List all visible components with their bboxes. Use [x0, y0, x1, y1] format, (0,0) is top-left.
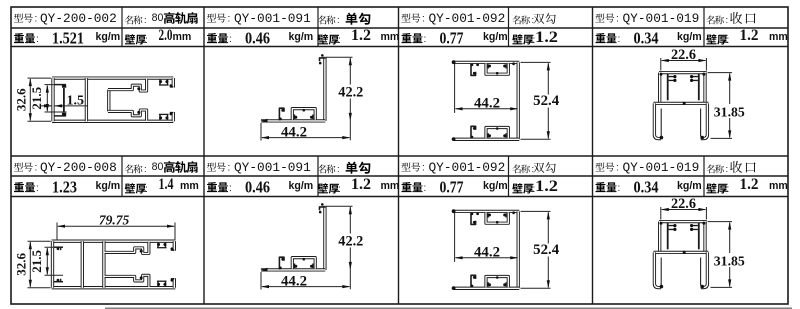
B2C1 profile E top-left clip	[54, 246, 64, 248]
cell(592.5,156) label 壁厚	[706, 183, 716, 193]
header sub-divider x=318	[317, 156, 319, 197]
cell(398.5,7) label 重量	[402, 33, 412, 43]
svg-text:1.2: 1.2	[351, 176, 371, 193]
svg-text::: :	[145, 184, 148, 195]
svg-text::: :	[726, 15, 729, 26]
dim 44.2 extension B1C3	[454, 64, 456, 113]
B2C1 profile E right top screw port	[158, 242, 166, 248]
profile B2C2 base	[261, 268, 325, 271]
cell(592.5,156) name value 收口	[730, 161, 742, 173]
cell(592.5,156) label 重量	[596, 182, 606, 192]
B1C1 profile A right bottom stub	[172, 112, 175, 121]
svg-text:0.34: 0.34	[634, 29, 659, 48]
B1C1 profile A middle divider wall	[85, 78, 88, 121]
svg-text:44.2: 44.2	[474, 244, 500, 260]
dim 31.85 line B1C4	[729, 74, 731, 138]
header sub-divider x=508.5	[508, 7, 510, 47]
B1C1 dim 32.6 extension lines	[28, 78, 52, 121]
B1C1 profile A C-channel upright	[107, 90, 110, 112]
svg-text::: :	[337, 164, 340, 175]
svg-text:42.2: 42.2	[338, 234, 363, 250]
dim 42.2 line B1C2	[349, 58, 351, 140]
dim 22.6 extension B1C4	[661, 58, 707, 71]
cell(11,156) label 型号	[14, 162, 23, 171]
B1C1 dim 21.5 extension lines	[45, 85, 67, 112]
dim 52.4 line B1C3	[547, 63, 549, 138]
dim 44.2 extension B1C2	[260, 123, 262, 141]
profile B1C3 top hat barbs	[487, 64, 489, 68]
cell(11,7) label 型号	[14, 13, 23, 22]
svg-text::: :	[338, 184, 341, 195]
B2C1 profile E right bottom stub	[173, 278, 176, 288]
B2C1 profile E wall 1	[81, 241, 84, 288]
B1C1 profile A C-channel top arm	[108, 79, 147, 91]
B2C1 dim 79.75 extension lines	[57, 223, 175, 241]
svg-text:80: 80	[152, 161, 164, 173]
dim 44.2 extension B2C2	[260, 272, 262, 290]
B2C1 profile E bottom arm	[105, 275, 149, 287]
profile B1C2 base	[261, 119, 325, 122]
svg-text:32.6: 32.6	[14, 253, 29, 276]
dim 44.2 line B2C3	[456, 257, 518, 259]
B1C1 profile A inner sub-wall	[63, 88, 65, 113]
svg-text:1.2: 1.2	[535, 178, 558, 195]
cell(11,156) label 重量	[14, 182, 24, 192]
B1C1 dim 21.5 line	[46, 86, 48, 112]
profile B2C3 bottom hat barbs	[487, 282, 489, 286]
profile B1C3 top tab	[471, 64, 476, 76]
svg-text::: :	[532, 164, 535, 175]
header sub-divider x=704	[703, 156, 705, 197]
cell(204,156) label 名称	[318, 165, 326, 174]
profile B2C3 bottom base	[454, 287, 520, 290]
dim 42.2 line B2C2	[349, 207, 351, 289]
B2C1 profile E top arm	[105, 242, 149, 254]
header sub-divider x=318	[317, 7, 319, 47]
dim 44.2 extension B2C3	[454, 213, 456, 262]
svg-text:kg/m: kg/m	[96, 31, 121, 43]
cell(398.5,156) label 名称	[512, 165, 520, 174]
svg-text::: :	[35, 14, 38, 25]
header sub-divider x=704	[703, 7, 705, 47]
dim 44.2 line B2C2	[262, 286, 349, 288]
profile B2C2 left tab	[279, 257, 284, 269]
profile B2C2 hat channel	[292, 258, 315, 269]
cell(204,7) label 重量	[207, 33, 217, 43]
svg-text:QY-200-008: QY-200-008	[40, 160, 117, 175]
svg-text:44.2: 44.2	[281, 124, 307, 140]
svg-text:1.2: 1.2	[740, 176, 759, 193]
profile B1C2 hat channel	[292, 109, 315, 120]
profile B2C3 top base left tip	[452, 209, 456, 213]
svg-text::: :	[422, 163, 425, 174]
profile B2C2 hat top dot	[303, 258, 306, 261]
table column line x=398.5	[398, 7, 400, 304]
svg-text::: :	[229, 34, 232, 45]
table row line y=196.5	[11, 196, 788, 198]
svg-text:QY-001-091: QY-001-091	[234, 160, 311, 175]
svg-text:80: 80	[152, 12, 164, 24]
svg-text::: :	[422, 14, 425, 25]
svg-text::: :	[616, 14, 619, 25]
profile B1C3 bottom hat barbs	[487, 133, 489, 137]
svg-text:1.2: 1.2	[535, 29, 558, 46]
profile B1C4 left leg	[654, 103, 661, 138]
profile B1C3 bottom tab	[471, 126, 476, 138]
profile B2C4 top bar	[659, 220, 707, 223]
svg-text::: :	[36, 34, 39, 45]
dim 52.4 extension B1C3	[521, 62, 551, 139]
dim 44.2 line B1C3	[456, 108, 518, 110]
table column line x=592.5	[592, 7, 594, 304]
svg-text:0.77: 0.77	[440, 178, 464, 197]
profile B1C3 top base	[454, 61, 520, 64]
cell(398.5,7) label 型号	[401, 13, 410, 22]
svg-text::: :	[229, 183, 232, 194]
profile B1C2 left tab	[279, 108, 284, 120]
profile B2C4 right clip	[698, 223, 700, 250]
svg-text::: :	[424, 34, 427, 45]
B2C1 dim 21.5 extension lines	[45, 247, 64, 275]
svg-text:52.4: 52.4	[533, 93, 559, 109]
dim 31.85 extension B2C4	[708, 222, 733, 288]
svg-text:22.6: 22.6	[671, 196, 696, 212]
svg-text:44.2: 44.2	[281, 273, 307, 289]
profile B2C4 right leg	[701, 252, 708, 287]
profile B2C3 middle wall	[517, 211, 520, 288]
svg-text:31.85: 31.85	[714, 104, 745, 119]
B2C1 dim 21.5 line	[46, 248, 48, 274]
svg-text::: :	[36, 183, 39, 194]
profile B1C3 top base left tip	[452, 60, 456, 64]
svg-text:kg/m: kg/m	[96, 180, 121, 192]
profile B2C3 top hat barbs	[487, 213, 489, 217]
B2C1 profile E bottom-left clip	[54, 281, 64, 283]
B1C1 profile A C-channel bottom arm	[108, 110, 147, 121]
profile B1C4 right leg	[701, 103, 708, 138]
table column line x=204	[203, 7, 205, 304]
svg-text::: :	[144, 15, 147, 26]
svg-text::: :	[35, 163, 38, 174]
svg-text:mm: mm	[769, 31, 788, 43]
B2C1 profile E top rail	[52, 240, 176, 243]
svg-text:kg/m: kg/m	[677, 31, 702, 43]
B1C1 profile A left wall	[51, 78, 54, 121]
header sub-divider x=122	[121, 156, 123, 197]
cell(11,156) label 名称	[125, 165, 133, 174]
svg-text:1.521: 1.521	[52, 29, 84, 48]
B2C1 dim 32.6 line	[29, 242, 31, 287]
profile B2C3 top tab	[471, 213, 476, 225]
svg-text:22.6: 22.6	[671, 47, 696, 63]
svg-text:mm: mm	[173, 31, 192, 43]
svg-text:79.75: 79.75	[99, 213, 130, 228]
B2C1 profile E left wall	[51, 241, 54, 288]
profile B2C3 bottom hat top dot	[496, 276, 499, 279]
cell(592.5,7) label 名称	[706, 16, 714, 25]
cell(592.5,7) label 重量	[596, 33, 606, 43]
B2C1 profile E right bottom screw port	[158, 281, 166, 287]
svg-text::: :	[727, 35, 730, 46]
profile B1C2 hat top dot	[303, 109, 306, 112]
svg-text:0.34: 0.34	[634, 178, 659, 197]
svg-text:1.23: 1.23	[52, 178, 77, 197]
svg-text:mm: mm	[180, 180, 199, 192]
cell(11,7) label 壁厚	[125, 34, 135, 44]
profile B2C4 left box wall	[658, 222, 661, 253]
profile B2C2 hat right barb	[312, 264, 314, 269]
svg-text::: :	[618, 34, 621, 45]
cell(398.5,156) name value 双勾	[533, 163, 544, 173]
svg-text::: :	[618, 183, 621, 194]
cell(398.5,156) label 型号	[401, 162, 410, 171]
profile B1C3 top hat channel	[486, 64, 508, 75]
profile B2C3 bottom tab	[471, 275, 476, 287]
svg-text:0.46: 0.46	[245, 178, 270, 197]
B1C1 profile A top rail	[52, 76, 173, 79]
B1C1 dim 1.5 line	[40, 105, 88, 107]
profile B1C4 left clip	[667, 74, 669, 101]
cell(398.5,7) name value 双勾	[533, 14, 544, 24]
profile B2C3 top base	[454, 210, 520, 213]
svg-text::: :	[532, 15, 535, 26]
dim 22.6 extension B2C4	[661, 207, 707, 220]
profile B1C2 vertical bar	[323, 57, 326, 121]
dim 31.85 extension B1C4	[708, 73, 733, 139]
cell(204,7) label 型号	[207, 13, 216, 22]
profile B2C2 hat left barb	[294, 264, 296, 269]
dim 22.6 line B2C4	[662, 209, 706, 211]
dim 42.2 extension B2C2	[327, 205, 353, 207]
cell(204,156) label 重量	[207, 182, 217, 192]
profile B2C3 top hat bottom dot	[496, 221, 499, 224]
svg-text::: :	[727, 184, 730, 195]
table row line y=176	[11, 175, 788, 177]
dim 44.2 line B1C2	[262, 137, 349, 139]
svg-text:42.2: 42.2	[338, 85, 363, 101]
profile B1C4 left box wall	[658, 73, 661, 104]
svg-text:QY-001-092: QY-001-092	[429, 160, 506, 175]
B2C1 profile E bottom rail	[52, 286, 176, 289]
svg-text:QY-001-092: QY-001-092	[429, 11, 506, 26]
cell(592.5,7) name value 收口	[730, 12, 742, 24]
profile B2C3 bottom hat channel	[486, 277, 508, 288]
cell(592.5,156) label 型号	[595, 162, 604, 171]
svg-text:0.46: 0.46	[245, 29, 270, 48]
cell(398.5,156) label 重量	[402, 182, 412, 192]
B1C1 profile A right bottom screw port	[160, 114, 168, 120]
profile B2C4 right box wall	[703, 222, 706, 253]
svg-text:mm: mm	[381, 31, 400, 43]
svg-text:31.85: 31.85	[714, 253, 745, 268]
partial next-row line at bottom edge	[105, 307, 792, 309]
header sub-divider x=122	[121, 7, 123, 47]
cell(592.5,7) label 型号	[595, 13, 604, 22]
B2C1 profile E right top stub	[173, 241, 176, 251]
cell(592.5,156) label 名称	[706, 165, 714, 174]
profile B2C2 vertical bar	[323, 206, 326, 270]
svg-text:1.2: 1.2	[351, 27, 371, 44]
svg-text:52.4: 52.4	[533, 242, 559, 258]
B1C1 profile A bottom rail	[52, 120, 173, 123]
svg-text:kg/m: kg/m	[289, 31, 314, 43]
profile B1C2 hat left barb	[294, 115, 296, 120]
profile B1C3 bottom base	[454, 138, 520, 141]
svg-text::: :	[145, 35, 148, 46]
svg-text:1.4: 1.4	[159, 176, 174, 193]
svg-text::: :	[338, 35, 341, 46]
profile B1C3 top hat bottom dot	[496, 72, 499, 75]
B1C1 profile A bottom comb hook	[54, 115, 66, 117]
cell(204,7) label 壁厚	[318, 34, 328, 44]
profile B1C4 top bar	[659, 71, 707, 74]
B1C1 profile A right top stub	[172, 78, 175, 87]
svg-text:44.2: 44.2	[474, 95, 500, 111]
profile B2C3 top hat channel	[486, 213, 508, 224]
table row line y=156	[11, 155, 788, 157]
profile B1C3 bottom hat channel	[486, 128, 508, 139]
cell(204,156) label 型号	[207, 162, 216, 171]
svg-text:QY-200-002: QY-200-002	[40, 11, 117, 26]
svg-text:1.5: 1.5	[67, 93, 85, 108]
B1C1 profile A right top screw port	[160, 79, 168, 85]
B2C1 dim 79.75 line	[58, 225, 174, 227]
table row line y=28	[11, 27, 788, 29]
svg-text::: :	[144, 164, 147, 175]
svg-text:QY-001-091: QY-001-091	[234, 11, 311, 26]
svg-text:QY-001-019: QY-001-019	[623, 160, 700, 175]
profile B1C2 hat right barb	[312, 115, 314, 120]
dim 31.85 line B2C4	[729, 223, 731, 287]
profile B1C3 middle wall	[517, 62, 520, 139]
cell(398.5,156) label 壁厚	[512, 183, 522, 193]
profile B1C3 middle wall top corner dot	[512, 62, 515, 65]
cell(398.5,7) label 壁厚	[512, 34, 522, 44]
dim 42.2 extension B1C2	[327, 56, 353, 58]
cell(204,156) label 壁厚	[318, 183, 328, 193]
table row line y=46.5	[11, 46, 788, 48]
profile B1C4 right box wall	[703, 73, 706, 104]
svg-text:mm: mm	[769, 180, 788, 192]
svg-text:QY-001-019: QY-001-019	[623, 11, 700, 26]
cell(11,156) label 壁厚	[125, 183, 135, 193]
svg-text:mm: mm	[381, 180, 400, 192]
profile B1C3 bottom base left tip	[452, 137, 456, 141]
profile B2C4 left leg	[654, 252, 661, 287]
svg-text:2.0: 2.0	[159, 27, 173, 44]
profile B2C4 crossbar	[653, 251, 708, 254]
svg-text::: :	[726, 164, 729, 175]
B1C1 dim 32.6 line	[29, 79, 31, 120]
profile B1C4 crossbar	[653, 102, 708, 105]
svg-text:1.2: 1.2	[740, 27, 759, 44]
profile B2C3 middle wall top corner dot	[512, 211, 515, 214]
header sub-divider x=508.5	[508, 156, 510, 197]
cell(204,7) name value 单勾	[346, 13, 358, 25]
cell(204,7) label 名称	[318, 16, 326, 25]
cell(11,7) label 重量	[14, 33, 24, 43]
svg-text:kg/m: kg/m	[483, 31, 508, 43]
B2C1 profile E wall 2	[102, 241, 105, 288]
profile B1C2 top barb	[320, 58, 326, 61]
cell(11,7) label 名称	[125, 16, 133, 25]
svg-text::: :	[228, 14, 231, 25]
B1C1 profile A top comb hook	[54, 84, 66, 86]
svg-text::: :	[424, 183, 427, 194]
svg-text:kg/m: kg/m	[677, 180, 702, 192]
svg-text:32.6: 32.6	[14, 88, 29, 111]
B2C1 dim 32.6 extension lines	[28, 241, 51, 288]
svg-text:21.5: 21.5	[29, 250, 44, 273]
profile B1C2 base left tip	[260, 119, 267, 123]
dim 52.4 extension B2C3	[521, 211, 551, 288]
svg-text::: :	[616, 163, 619, 174]
svg-text:kg/m: kg/m	[483, 180, 508, 192]
svg-text::: :	[337, 15, 340, 26]
profile B2C4 left clip	[667, 223, 669, 250]
profile B2C3 bottom base left tip	[452, 286, 456, 290]
svg-text:kg/m: kg/m	[289, 180, 314, 192]
dim 22.6 line B1C4	[662, 60, 706, 62]
svg-text:0.77: 0.77	[440, 29, 464, 48]
profile B1C4 right clip	[698, 74, 700, 101]
profile B2C2 base left tip	[260, 268, 267, 272]
cell(204,156) name value 单勾	[346, 162, 358, 174]
svg-text::: :	[228, 163, 231, 174]
dim 52.4 line B2C3	[547, 212, 549, 287]
cell(592.5,7) label 壁厚	[706, 34, 716, 44]
cell(398.5,7) label 名称	[512, 16, 520, 25]
profile B2C2 top barb	[320, 207, 326, 210]
profile B1C3 bottom hat top dot	[496, 127, 499, 130]
